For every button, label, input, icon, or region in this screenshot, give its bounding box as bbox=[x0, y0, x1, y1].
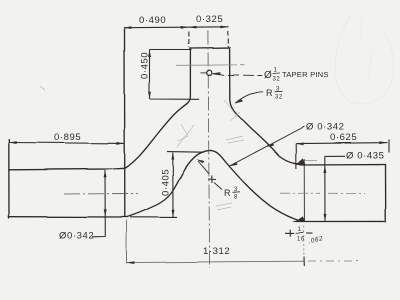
svg-text:8: 8 bbox=[234, 195, 238, 201]
faint pencil scribbles in body bbox=[40, 12, 394, 210]
dimension 0.405 bbox=[130, 152, 204, 218]
svg-text:0·450: 0·450 bbox=[140, 52, 151, 79]
arrowheads dia 0.342 left bbox=[104, 170, 107, 177]
faint ghost marks upper right bbox=[335, 14, 393, 104]
wire saddle arch curve (bottom body) bbox=[127, 150, 300, 220]
text R 3/32 bbox=[266, 87, 283, 101]
wire right pipe joint line bbox=[303, 160, 305, 222]
text TAPER PINS note bbox=[264, 68, 329, 83]
bottom socket lip wedge bbox=[293, 217, 305, 222]
centerline vertical through stub and arch bbox=[208, 31, 210, 269]
dimension dia 0.342 left bbox=[92, 170, 105, 237]
svg-text:16: 16 bbox=[297, 237, 305, 243]
svg-text:Ø0·342: Ø0·342 bbox=[59, 231, 94, 242]
svg-text:Ø: Ø bbox=[264, 70, 272, 81]
extension dash stub left bbox=[187, 32, 189, 48]
extension dash stub right bbox=[227, 31, 229, 47]
svg-text:1: 1 bbox=[274, 68, 278, 74]
hole cross line bbox=[201, 72, 207, 74]
tick cross at right end of 1.312 bbox=[303, 257, 305, 267]
arrowhead 1.312 left bbox=[127, 261, 135, 264]
extension dotted below 1/16 bbox=[303, 226, 305, 257]
dimension 0.490/0.325 top line bbox=[124, 26, 229, 29]
wire step extension line at end of left pipe bbox=[124, 28, 126, 217]
svg-text:32: 32 bbox=[275, 95, 283, 101]
faint pencil line across stub bbox=[176, 64, 245, 67]
arrowhead 0.490 left bbox=[124, 26, 132, 29]
svg-text:TAPER PINS: TAPER PINS bbox=[282, 70, 329, 79]
svg-text:Ø 0·342: Ø 0·342 bbox=[306, 122, 345, 133]
centerline horizontal left pipe bbox=[64, 193, 138, 196]
arrowheads 0.405 bbox=[171, 153, 174, 160]
arrowhead 0.625 right bbox=[379, 141, 387, 144]
leader + to R3/8 text bbox=[214, 183, 222, 190]
leader dia 0.342 right bbox=[229, 127, 304, 167]
taper pin hole bbox=[207, 70, 212, 75]
arrowhead dia0.342 right leader end bbox=[229, 162, 238, 166]
svg-text:R: R bbox=[224, 188, 231, 198]
faint tail right of top lip bbox=[305, 159, 317, 161]
arrowheads 0.450 bbox=[148, 50, 151, 57]
extension left for 1.312 bbox=[126, 220, 128, 264]
svg-text:0·325: 0·325 bbox=[196, 14, 223, 25]
radius leader from + to arch bbox=[198, 161, 209, 174]
centerline horizontal right pipe bbox=[280, 192, 365, 194]
svg-text:0·405: 0·405 bbox=[161, 169, 172, 196]
arrowhead blob at S-curve crossing bbox=[266, 143, 275, 147]
arrowhead 0.325 right bbox=[220, 26, 228, 29]
dimension 0.450 bbox=[150, 50, 200, 100]
arrowheads dia 0.435 bbox=[323, 166, 326, 173]
arrowhead at taper pin hole bbox=[213, 72, 221, 75]
svg-text:0·490: 0·490 bbox=[139, 15, 166, 26]
svg-text:32: 32 bbox=[273, 77, 281, 83]
svg-text:R: R bbox=[266, 88, 273, 98]
svg-text:0·895: 0·895 bbox=[54, 132, 81, 143]
wire branch stub top edge bbox=[190, 47, 230, 49]
faint right tail of 1.312 line bbox=[308, 260, 358, 262]
taper pin leader bbox=[213, 73, 263, 75]
dimension 0.895 line bbox=[9, 142, 125, 145]
dimension 1.312 line bbox=[127, 261, 216, 264]
dim 1/16 ticks bbox=[285, 230, 313, 237]
text R 3/8 bbox=[224, 187, 240, 201]
leader R3/32 bbox=[235, 92, 263, 103]
wire body S-curve left (pipe to branch stub) bbox=[124, 48, 190, 169]
arrowheads 0.895 bbox=[9, 141, 17, 144]
dimension 0.625 line bbox=[296, 140, 389, 170]
arrowheads middle pair bbox=[181, 26, 189, 29]
text 1/16 fraction bbox=[296, 227, 305, 243]
arrowhead radius to arch bbox=[196, 159, 204, 163]
top socket lip wedge bbox=[297, 159, 305, 165]
center mark + bbox=[208, 176, 216, 184]
wire stub right edge + flare radius + body S-curve right bbox=[230, 48, 300, 165]
svg-text:1: 1 bbox=[298, 227, 302, 233]
wire left pipe outline bbox=[9, 140, 127, 219]
arrowhead 0.625 left bbox=[296, 143, 304, 146]
dimension dia 0.435 bbox=[325, 156, 345, 221]
svg-text:Ø 0·435: Ø 0·435 bbox=[346, 151, 385, 162]
svg-text:1·312: 1·312 bbox=[203, 246, 230, 257]
wire right pipe outline bbox=[295, 165, 386, 222]
svg-text:0·625: 0·625 bbox=[330, 132, 357, 143]
arrowhead R3/32 leader bbox=[235, 99, 243, 104]
